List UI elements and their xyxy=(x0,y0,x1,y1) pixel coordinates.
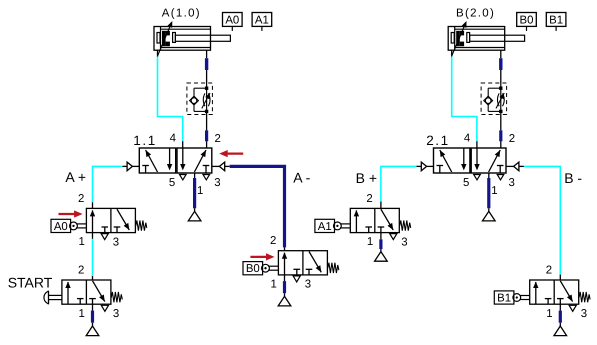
valve START port number 3 xyxy=(113,308,119,320)
valve 1.1 5/2-way impulse valve xyxy=(139,148,212,173)
svg-text:1: 1 xyxy=(546,308,552,320)
sensor label box B0 xyxy=(517,13,537,31)
svg-text:2: 2 xyxy=(546,265,552,277)
compressed air supply below valve 1.1 xyxy=(188,211,201,221)
sensor label box A1 xyxy=(252,13,272,31)
wire cylinder B left port to valve 2.1 port 4 (unpressurized) xyxy=(452,50,477,148)
valve B1 port number 2 xyxy=(546,265,552,277)
valve START port number 1 xyxy=(79,308,85,320)
label B(2.0) with pointer arrow xyxy=(452,7,495,56)
svg-text:A1: A1 xyxy=(318,221,332,233)
svg-text:4: 4 xyxy=(464,132,470,144)
valve 1.1 port number 2 xyxy=(215,133,221,145)
svg-text:1.1: 1.1 xyxy=(133,133,157,148)
valve B1 port number 1 xyxy=(546,308,552,320)
cylinder A(1.0) double-acting, retracted xyxy=(154,27,230,51)
svg-text:START: START xyxy=(8,274,53,290)
wire valve 2.1 port 1 to supply (pressurized) xyxy=(488,173,490,211)
valve 2.1 5/2-way impulse valve xyxy=(434,148,507,173)
wire valve 1.1 port 1 to supply (pressurized) xyxy=(194,173,196,211)
wire A- : valve 1.1 right pilot to valve B0 port 2 (pressurized) xyxy=(230,166,285,250)
svg-text:2: 2 xyxy=(270,235,276,247)
svg-text:1: 1 xyxy=(79,308,85,320)
valve 2.1 left pilot xyxy=(417,162,434,171)
label A(1.0) with pointer arrow xyxy=(158,7,201,56)
valve B0 port number 2 xyxy=(270,235,276,247)
svg-text:B(2.0): B(2.0) xyxy=(456,7,495,19)
wire cylinder A left port to valve 1.1 port 4 (unpressurized) xyxy=(158,50,183,148)
exhaust triangle valve 2.1 port 5 xyxy=(474,175,481,180)
wire valve B1 port 1 to supply (pressurized) xyxy=(559,304,561,326)
node A+ label xyxy=(65,169,86,185)
svg-text:2.1: 2.1 xyxy=(426,133,450,148)
valve 1.1 port number 1 xyxy=(197,185,203,197)
valve A0 port number 2 xyxy=(78,193,84,205)
compressed air supply below valve B0 xyxy=(278,296,291,306)
compressed air supply below valve 2.1 xyxy=(483,211,496,221)
svg-text:B1: B1 xyxy=(549,14,563,26)
svg-text:A0: A0 xyxy=(54,221,68,233)
valve 2.1 right pilot xyxy=(506,162,524,171)
wire valve START port 1 to supply (pressurized) xyxy=(92,304,94,326)
valve START label xyxy=(8,274,53,290)
valve 1.1 port number 5 xyxy=(169,177,175,189)
svg-text:B0: B0 xyxy=(246,263,260,275)
svg-text:2: 2 xyxy=(215,133,221,145)
svg-text:3: 3 xyxy=(113,308,119,320)
flow control valve (one-way throttle) below cylinder A xyxy=(187,83,213,115)
wire flow control to valve 1.1 port 2 (pressurized) xyxy=(206,115,208,149)
wire cylinder A right port to flow control (pressurized) xyxy=(206,50,208,83)
wire B- : valve 2.1 right pilot to valve B1 port 2 (unpressurized) xyxy=(524,166,560,280)
wire valve A1 port 1 to supply (pressurized) xyxy=(380,233,382,252)
valve 2.1 port number 1 xyxy=(491,185,497,197)
valve 2.1 port number 2 xyxy=(509,133,515,145)
valve A0 port number 3 xyxy=(113,236,119,248)
svg-text:3: 3 xyxy=(581,308,587,320)
svg-text:4: 4 xyxy=(170,132,176,144)
exhaust triangle valve START port 3 xyxy=(101,305,108,311)
exhaust triangle valve 1.1 port 3 xyxy=(203,175,210,180)
valve START port number 2 xyxy=(78,265,84,277)
valve 1.1 left pilot xyxy=(122,162,139,171)
valve B0 3/2-way roller valve (actuated) xyxy=(278,251,338,275)
red actuation arrow at valve A0 xyxy=(59,210,83,217)
svg-text:2: 2 xyxy=(366,193,372,205)
svg-text:B1: B1 xyxy=(497,293,511,305)
valve 1.1 label xyxy=(133,133,157,148)
wire valve B0 port 1 to supply (pressurized) xyxy=(284,275,286,296)
valve A1 port number 2 xyxy=(366,193,372,205)
svg-text:A0: A0 xyxy=(225,14,239,26)
sensor label box A0 xyxy=(223,13,243,31)
svg-text:3: 3 xyxy=(305,279,311,291)
svg-text:1: 1 xyxy=(271,278,277,290)
valve 2.1 port number 3 xyxy=(509,177,515,189)
svg-text:3: 3 xyxy=(214,177,220,189)
svg-text:1: 1 xyxy=(491,185,497,197)
compressed air supply below valve B1 xyxy=(554,326,567,336)
valve A0 3/2-way roller valve (actuated) xyxy=(86,208,146,232)
svg-text:5: 5 xyxy=(463,177,469,189)
svg-text:2: 2 xyxy=(78,193,84,205)
exhaust triangle valve B1 port 3 xyxy=(569,305,576,311)
red actuation arrow at valve B0 xyxy=(250,253,274,260)
wire flow control to valve 2.1 port 2 (pressurized) xyxy=(500,115,502,149)
svg-text:5: 5 xyxy=(169,177,175,189)
svg-text:1: 1 xyxy=(197,185,203,197)
svg-text:A1: A1 xyxy=(255,14,269,26)
wire B+ : valve 2.1 left pilot to valve A1 port 2 (unpressurized) xyxy=(381,166,417,208)
svg-text:3: 3 xyxy=(113,236,119,248)
compressed air supply below valve A1 xyxy=(375,252,388,262)
node B- label xyxy=(564,170,582,186)
svg-text:3: 3 xyxy=(401,236,407,248)
valve A1 3/2-way roller valve xyxy=(350,208,410,232)
flow control valve (one-way throttle) below cylinder B xyxy=(481,83,507,115)
valve 1.1 port number 3 xyxy=(214,177,220,189)
exhaust triangle valve A0 port 3 xyxy=(101,234,108,240)
exhaust triangle valve A1 port 3 xyxy=(390,234,397,240)
valve B1 port number 3 xyxy=(581,308,587,320)
valve START 3/2-way pushbutton valve xyxy=(62,280,122,304)
valve 2.1 label xyxy=(426,133,450,148)
valve A1 port number 1 xyxy=(367,236,373,248)
valve B0 port number 3 xyxy=(305,279,311,291)
exhaust triangle valve B0 port 3 xyxy=(293,276,300,282)
valve A1 roller actuator with label box xyxy=(315,219,350,233)
svg-text:B -: B - xyxy=(564,170,582,186)
red actuation arrow at valve 1.1 xyxy=(219,150,243,157)
svg-text:1: 1 xyxy=(367,236,373,248)
node A- label xyxy=(293,170,310,186)
valve B0 port number 1 xyxy=(271,278,277,290)
compressed air supply below START valve xyxy=(86,326,99,336)
valve A0 port number 1 xyxy=(79,236,85,248)
wire cylinder B right port to flow control (pressurized) xyxy=(500,50,502,83)
cylinder B(2.0) double-acting, retracted xyxy=(448,27,524,51)
valve 1.1 port number 4 xyxy=(170,132,176,144)
valve A1 port number 3 xyxy=(401,236,407,248)
valve 2.1 port number 5 xyxy=(463,177,469,189)
svg-text:B +: B + xyxy=(356,170,377,186)
wire valve A0 port 1 to START valve port 2 (unpressurized) xyxy=(92,233,94,280)
exhaust triangle valve 1.1 port 5 xyxy=(180,175,187,180)
svg-text:1: 1 xyxy=(79,236,85,248)
svg-text:A -: A - xyxy=(293,170,310,186)
valve A0 roller actuator with label box xyxy=(51,219,86,233)
svg-text:A +: A + xyxy=(65,169,86,185)
valve 2.1 port number 4 xyxy=(464,132,470,144)
valve B1 roller actuator with label box xyxy=(494,291,529,305)
wire A+ : valve 1.1 left pilot to valve A0 port 2 (unpressurized) xyxy=(93,166,123,208)
valve B0 roller actuator with label box xyxy=(243,262,278,276)
svg-text:3: 3 xyxy=(509,177,515,189)
valve B1 3/2-way roller valve xyxy=(530,280,590,304)
svg-text:2: 2 xyxy=(509,133,515,145)
valve START pushbutton actuator xyxy=(44,291,62,305)
exhaust triangle valve 2.1 port 3 xyxy=(497,175,504,180)
svg-text:2: 2 xyxy=(78,265,84,277)
valve 1.1 right pilot xyxy=(212,162,230,171)
node B+ label xyxy=(356,170,377,186)
svg-text:B0: B0 xyxy=(520,14,534,26)
svg-text:A(1.0): A(1.0) xyxy=(162,7,201,19)
sensor label box B1 xyxy=(546,13,566,31)
